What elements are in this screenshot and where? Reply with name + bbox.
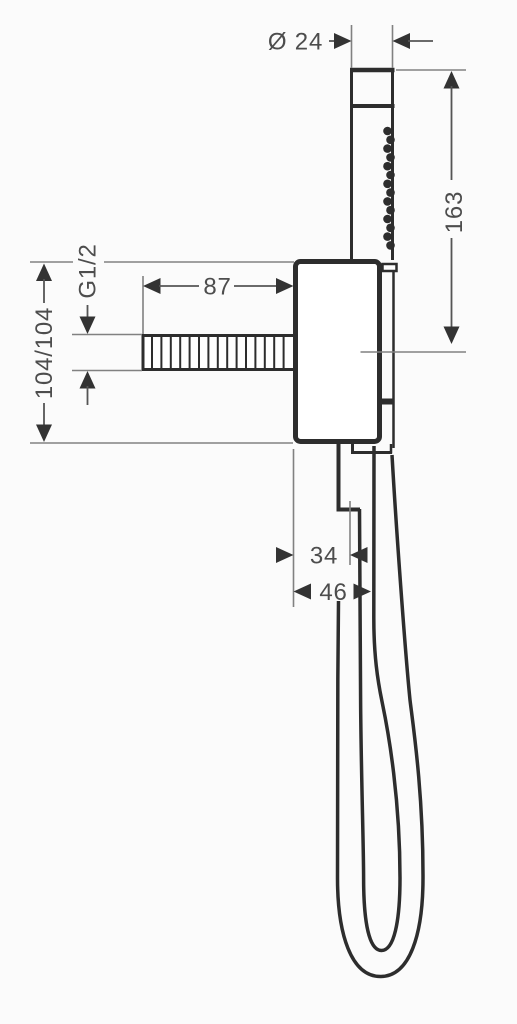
svg-text:34: 34 [310, 543, 338, 570]
dimension Ø 24 [268, 25, 433, 68]
svg-text:46: 46 [319, 579, 347, 606]
holder box [296, 262, 380, 442]
hose outer curve [337, 455, 423, 977]
dimension 163 [361, 70, 469, 352]
dimension 104/104 [31, 264, 58, 443]
svg-text:G1/2: G1/2 [75, 243, 102, 298]
dimension 46 [294, 579, 372, 606]
extension line y=262 top left (with gap at G1/2 text) [30, 261, 294, 263]
bracket plate below holder [351, 443, 392, 454]
extension line from box left edge down [293, 449, 295, 607]
hand shower cylinder [350, 70, 395, 262]
svg-text:Ø 24: Ø 24 [268, 29, 323, 56]
hose inner curve [360, 446, 401, 951]
dimension G1/2 [72, 243, 142, 405]
svg-text:104/104: 104/104 [31, 307, 58, 399]
svg-text:87: 87 [203, 274, 231, 301]
spray nozzle dots [383, 127, 395, 250]
nipple hose outlet under holder [337, 443, 361, 510]
dimension 87 [143, 274, 294, 335]
connector tube right of holder [382, 271, 394, 448]
extension line y=443 bottom left [30, 442, 293, 444]
dimension 34 [276, 543, 368, 570]
svg-text:163: 163 [441, 191, 468, 233]
hook cap top right of holder [383, 264, 397, 271]
extension line x=350 from nipple [349, 501, 351, 565]
wall bar (87mm bar, hatched) [143, 336, 295, 370]
